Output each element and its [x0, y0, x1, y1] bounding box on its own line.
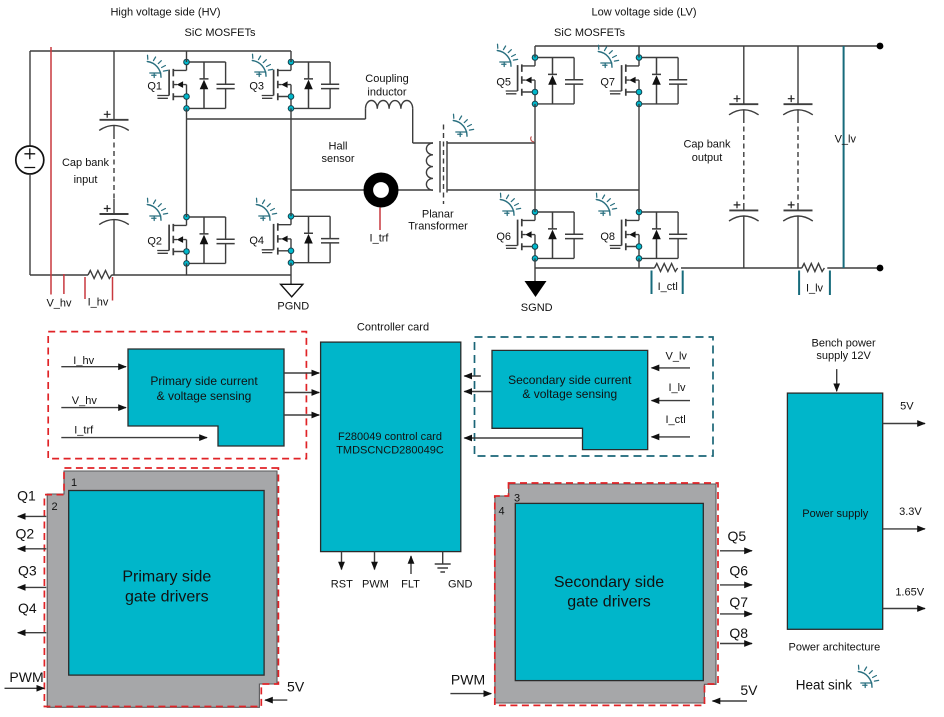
transistor Q6 [506, 209, 584, 261]
svg-text:2: 2 [52, 501, 58, 513]
svg-text:Secondary side: Secondary side [554, 574, 664, 591]
heat sink at Q7 [598, 45, 618, 67]
svg-text:Q7: Q7 [600, 77, 615, 89]
svg-text:1.65V: 1.65V [895, 587, 924, 599]
svg-text:I_lv: I_lv [806, 283, 824, 295]
svg-text:RST: RST [331, 579, 353, 591]
svg-text:PWM: PWM [451, 672, 485, 688]
pin RST (down arrow) [341, 552, 343, 570]
wire: dashed continuation between input caps [113, 134, 115, 199]
svg-text:4: 4 [499, 506, 505, 518]
svg-text:Q4: Q4 [18, 600, 37, 616]
sense taps I_lv (teal) [799, 271, 830, 296]
wire: transformer secondary bottom to Q7/Q8 leg [447, 189, 639, 191]
wire: Q5/Q6 leg vertical segments [534, 46, 536, 268]
svg-text:I_ctl: I_ctl [666, 414, 686, 426]
heat sink at Q5 [497, 44, 517, 66]
heat sink at Q4 [256, 198, 276, 220]
svg-text:I_ctl: I_ctl [658, 281, 678, 293]
svg-text:Low voltage side (LV): Low voltage side (LV) [592, 7, 697, 19]
sense taps I_ctl (teal) [652, 271, 683, 295]
heat sink at Q1 [147, 55, 167, 77]
transformer T1 primary winding [426, 143, 433, 190]
transistor Q4 [262, 214, 340, 266]
transistor Q5 [506, 55, 584, 107]
svg-text:Q3: Q3 [18, 563, 37, 579]
svg-text:Q3: Q3 [249, 81, 264, 93]
svg-text:Hall: Hall [329, 141, 348, 153]
wire: dashed continuation column 2 [797, 118, 799, 206]
transistor Q1 (SiC MOSFET + body diode + cap) [157, 59, 235, 111]
wire: HV bottom rail left [30, 274, 88, 276]
svg-text:Q6: Q6 [496, 231, 511, 243]
block: secondary side current & voltage sensing [492, 350, 648, 449]
svg-text:Q2: Q2 [147, 236, 162, 248]
wire: transformer secondary top to Q5/Q6 leg [447, 142, 535, 144]
svg-text:V_lv: V_lv [835, 134, 857, 146]
svg-text:& voltage sensing: & voltage sensing [522, 387, 617, 401]
heat sink at Q3 [252, 54, 272, 76]
svg-text:Power supply: Power supply [802, 508, 869, 520]
capacitor: output C6 [797, 206, 799, 211]
wire: HV top rail [30, 50, 291, 52]
heat sink at Q2 [147, 198, 167, 220]
svg-text:Q8: Q8 [600, 231, 615, 243]
block: F280049 controller card U1 [321, 342, 461, 551]
wire: leg A vertical segments [186, 51, 188, 275]
wire: cap bank output column 1 bottom [743, 216, 745, 268]
svg-text:gate drivers: gate drivers [567, 594, 651, 611]
transistor Q2 [157, 214, 235, 266]
svg-text:Cap bank: Cap bank [683, 139, 731, 151]
svg-text:Controller card: Controller card [357, 322, 429, 334]
pin FLT (up arrow) [410, 556, 412, 574]
wire: Q7/Q8 leg vertical segments [638, 46, 640, 268]
svg-text:sensor: sensor [321, 153, 354, 165]
svg-text:V_hv: V_hv [46, 298, 72, 310]
transistor Q3 [262, 59, 340, 111]
svg-text:Q5: Q5 [496, 77, 511, 89]
node: LV top terminal dot [877, 43, 884, 50]
boundary: secondary gate drivers (red dashed outline) [495, 483, 718, 705]
signals: primary sensing to controller (3 arrows) [284, 372, 319, 374]
transistor Q7 [610, 55, 688, 107]
svg-text:PGND: PGND [277, 301, 309, 313]
svg-text:3.3V: 3.3V [899, 506, 922, 518]
resistor: I_ctl shunt [655, 264, 678, 272]
heat sink at Q6 [500, 193, 520, 215]
wire: switch node B / hall sensor wire to primary bottom [291, 189, 433, 191]
wire: switch node A to coupling inductor [187, 109, 366, 119]
svg-text:Q2: Q2 [16, 526, 35, 542]
inductor: coupling inductor L1 [366, 100, 413, 108]
svg-text:5V: 5V [740, 682, 758, 698]
svg-text:5V: 5V [287, 679, 305, 695]
svg-text:PWM: PWM [9, 669, 43, 685]
sense line I_hv left (red) [84, 277, 86, 299]
sense line I_hv right (red) [112, 277, 114, 301]
boundary: primary sensing (red dashed box) [48, 332, 306, 459]
resistor: HV shunt [88, 271, 112, 279]
sense line I_trf (red) [379, 208, 381, 231]
svg-text:Power architecture: Power architecture [789, 642, 881, 654]
card: secondary gate driver boards 3+4 (gray union) [495, 484, 716, 703]
svg-text:Q1: Q1 [147, 81, 162, 93]
block: primary side gate drivers (teal) [69, 491, 264, 676]
wire: HV left branch upper [29, 51, 31, 146]
boundary: primary gate drivers (red dashed outline) [44, 468, 278, 707]
wire: HV left branch lower [29, 174, 31, 275]
svg-text:TMDSCNCD280049C: TMDSCNCD280049C [336, 445, 444, 457]
svg-text:Bench power: Bench power [811, 338, 876, 350]
svg-text:inductor: inductor [367, 87, 406, 99]
hall sensor (current transducer ring) [368, 177, 393, 202]
heat sink at Q8 [596, 193, 616, 215]
svg-text:Q8: Q8 [729, 625, 748, 641]
pin GND (earth symbol) [435, 552, 473, 591]
block: primary side current & voltage sensing [128, 349, 284, 446]
svg-text:5V: 5V [900, 401, 914, 413]
svg-text:& voltage sensing: & voltage sensing [157, 389, 252, 403]
svg-text:gate drivers: gate drivers [125, 589, 209, 606]
wire: cap bank input branch bottom [113, 220, 115, 275]
svg-text:FLT: FLT [401, 579, 420, 591]
svg-text:I_hv: I_hv [73, 355, 94, 367]
svg-text:F280049 control card: F280049 control card [338, 431, 442, 443]
block: secondary side gate drivers (teal) [515, 503, 703, 680]
wire: leg B vertical segments [290, 51, 292, 275]
wire: inductor to transformer primary top [413, 109, 433, 143]
svg-text:input: input [74, 174, 98, 186]
svg-text:SiC MOSFETs: SiC MOSFETs [554, 27, 625, 39]
svg-text:Q4: Q4 [249, 235, 264, 247]
card: primary gate driver boards 1+2 (gray union) [47, 471, 277, 707]
sense line V_lv (teal vertical) [843, 46, 845, 268]
svg-text:Primary side: Primary side [122, 569, 211, 586]
svg-text:supply 12V: supply 12V [816, 350, 871, 362]
capacitor: output C3 [729, 95, 759, 115]
svg-text:output: output [692, 152, 723, 164]
voltage source V1 [16, 146, 44, 174]
wire: cap bank input branch top [113, 51, 115, 119]
svg-text:Heat sink: Heat sink [796, 678, 853, 693]
svg-text:Secondary side current: Secondary side current [508, 373, 632, 387]
block: power supply [787, 393, 882, 629]
svg-text:Q1: Q1 [17, 488, 36, 504]
svg-text:Cap bank: Cap bank [62, 157, 110, 169]
signals: secondary sensing to controller (3 arrows) [464, 375, 481, 377]
ground SGND (solid triangle) [521, 268, 553, 314]
svg-text:I_lv: I_lv [668, 382, 686, 394]
signal: 12V into power supply (down arrow) [836, 369, 838, 391]
wire: cap bank output column 1 top [743, 46, 745, 104]
svg-text:I_trf: I_trf [74, 424, 94, 436]
pin PWM (down arrow) [374, 552, 376, 570]
svg-text:1: 1 [71, 477, 77, 489]
svg-text:Q7: Q7 [729, 594, 748, 610]
svg-text:V_hv: V_hv [72, 395, 98, 407]
svg-text:PWM: PWM [362, 579, 389, 591]
svg-text:Planar: Planar [422, 209, 454, 221]
resistor: I_lv shunt [802, 264, 825, 272]
capacitor: output C4 [743, 206, 745, 211]
capacitor: cap bank input C2 [113, 199, 115, 214]
svg-text:SGND: SGND [521, 302, 553, 314]
heat sink at transformer [453, 114, 473, 136]
transistor Q8 [610, 209, 688, 261]
svg-text:GND: GND [448, 579, 473, 591]
wire: LV top rail [535, 45, 880, 47]
wire: HV bottom rail right [112, 274, 292, 276]
svg-text:Q6: Q6 [729, 563, 748, 579]
sense line V_hv (red, long) [50, 47, 52, 295]
svg-text:I_hv: I_hv [88, 297, 109, 309]
ground PGND (open triangle) [277, 275, 309, 313]
svg-text:Q5: Q5 [727, 528, 746, 544]
transformer T1 core [440, 141, 447, 193]
svg-text:High voltage side (HV): High voltage side (HV) [110, 7, 220, 19]
svg-text:I_trf: I_trf [370, 233, 390, 245]
wire: dashed continuation column 1 [743, 118, 745, 206]
sense line V_hv return (red, short) [63, 274, 65, 294]
boundary: secondary sensing (teal dashed box) [475, 337, 714, 456]
wire: cap bank output column 2 bottom [797, 216, 799, 268]
svg-text:3: 3 [514, 493, 520, 505]
svg-text:V_lv: V_lv [665, 351, 687, 363]
svg-text:Transformer: Transformer [408, 221, 468, 233]
node: small red mark at secondary joint [531, 137, 534, 142]
wire: LV bottom rail [535, 267, 880, 269]
node: LV bottom terminal dot [877, 265, 884, 272]
wire: cap bank output column 2 top [797, 46, 799, 104]
capacitor: cap bank input C1 [99, 111, 129, 131]
svg-text:Coupling: Coupling [365, 73, 408, 85]
capacitor: output C5 [783, 95, 813, 115]
svg-text:Primary side current: Primary side current [150, 374, 258, 388]
svg-text:SiC MOSFETs: SiC MOSFETs [185, 27, 256, 39]
